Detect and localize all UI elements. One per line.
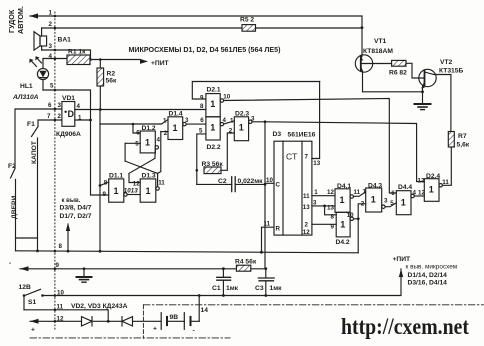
svg-text:13: 13 xyxy=(303,204,310,211)
svg-text:8: 8 xyxy=(200,103,204,110)
svg-text:10: 10 xyxy=(223,93,230,100)
wire D3 out 1 to D4.1 pin12 xyxy=(312,195,335,197)
svg-text:к выв. микросхем: к выв. микросхем xyxy=(406,264,458,271)
wire D3 out 3 to D4.1 pin13 and D4.2 pin8 xyxy=(312,206,336,215)
svg-text:R5 2: R5 2 xyxy=(240,17,254,24)
svg-text:VT1: VT1 xyxy=(374,38,387,45)
svg-text:D2.1: D2.1 xyxy=(207,87,221,94)
svg-text:D4.4: D4.4 xyxy=(398,184,412,191)
svg-text:4: 4 xyxy=(157,137,161,144)
gate D2.3 xyxy=(234,117,248,141)
resistor R3 xyxy=(204,167,221,174)
wire D1.4 out to D2.2 pin6 xyxy=(186,123,206,125)
svg-text:D1.3: D1.3 xyxy=(142,173,156,180)
ground on wire 9 xyxy=(83,269,85,277)
wire D1.4 pin2 from trigger output xyxy=(158,132,161,174)
svg-text:D3/16, D4/14: D3/16, D4/14 xyxy=(408,280,448,287)
svg-text:F1: F1 xyxy=(27,121,35,128)
resistor R1 xyxy=(67,55,90,65)
svg-text:+ПИТ: +ПИТ xyxy=(393,256,412,263)
svg-text:S1: S1 xyxy=(28,299,36,306)
svg-text:к выв.: к выв. xyxy=(62,198,81,204)
battery 9В xyxy=(160,313,162,330)
label ГУДОК АВТОМ. (rotated) xyxy=(7,6,25,34)
svg-text:1: 1 xyxy=(163,117,167,124)
wire D4.2 out to D4.3 pin2 and down to wire8 xyxy=(354,204,366,253)
wire 1 (horn line, to VT1 emitter) xyxy=(30,16,362,56)
gate D4.1 xyxy=(335,189,350,213)
svg-text:+: + xyxy=(153,326,157,333)
svg-text:10: 10 xyxy=(347,212,354,219)
svg-text:1: 1 xyxy=(210,123,215,133)
svg-text:D3/8, D4/7: D3/8, D4/7 xyxy=(60,205,92,212)
svg-text:R1 1к: R1 1к xyxy=(68,49,86,56)
svg-text:-: - xyxy=(9,260,11,267)
wire 10 (+12V rail to +PIT) xyxy=(43,269,401,296)
gate D4.4 xyxy=(396,191,411,215)
gate D2.4 xyxy=(424,179,439,202)
arrow left on wire 1 xyxy=(30,13,39,18)
wire 3 xyxy=(42,50,91,60)
wire 4 (LED to R1 to +PIT) xyxy=(43,59,140,60)
svg-text:D1.4: D1.4 xyxy=(169,111,183,118)
svg-text:11: 11 xyxy=(303,193,310,200)
svg-text:1: 1 xyxy=(145,138,150,148)
svg-text:13: 13 xyxy=(418,177,425,184)
arrow к выв. (to pins) xyxy=(67,224,69,251)
transistor VT2 КТ315Б xyxy=(419,69,436,86)
svg-text:1мк: 1мк xyxy=(270,285,283,292)
wire 12 (+ input) xyxy=(30,320,199,322)
svg-text:561ИЕ16: 561ИЕ16 xyxy=(288,132,316,139)
svg-text:8: 8 xyxy=(59,243,63,250)
svg-text:1: 1 xyxy=(230,117,234,124)
diode VD2 xyxy=(82,317,93,326)
svg-text:D4.3: D4.3 xyxy=(368,183,382,190)
svg-text:13: 13 xyxy=(327,204,334,211)
VD1 pin row 6-3 to F2 xyxy=(15,109,62,168)
wire D2.2 pin5 to R3/C2 node xyxy=(197,134,206,185)
ground xyxy=(422,92,424,104)
svg-text:http://cxem.net: http://cxem.net xyxy=(341,314,469,339)
svg-text:R4 56к: R4 56к xyxy=(235,259,257,266)
svg-text:1: 1 xyxy=(340,195,345,205)
svg-text:R2: R2 xyxy=(107,71,116,78)
wire 2 (speaker line through R5) xyxy=(42,27,362,29)
wire D1.3 pin12 from cross xyxy=(129,173,140,182)
svg-text:ГУДОК: ГУДОК xyxy=(7,9,16,33)
svg-text:12В: 12В xyxy=(19,284,31,291)
svg-text:1: 1 xyxy=(371,195,376,205)
wire D3 C input xyxy=(265,182,274,184)
gate D1.3 xyxy=(140,179,156,202)
wire D4.4 out to D2.4 pin12 xyxy=(414,195,424,197)
wire 11 xyxy=(24,310,108,322)
svg-text:ДВЕРИ: ДВЕРИ xyxy=(11,195,18,219)
gate D4.2 xyxy=(336,212,350,237)
svg-text:6: 6 xyxy=(48,102,52,109)
svg-text:13: 13 xyxy=(131,188,138,195)
svg-text:1: 1 xyxy=(114,186,119,196)
svg-text:D3: D3 xyxy=(273,131,282,138)
gate D1.1 xyxy=(109,179,124,202)
svg-text:12: 12 xyxy=(133,180,140,187)
wire R6 to VT2 base xyxy=(406,63,425,78)
svg-text:2: 2 xyxy=(164,130,168,137)
svg-text:АЛ310А: АЛ310А xyxy=(12,94,39,101)
capacitor C3 xyxy=(265,269,267,296)
svg-text:D1.2: D1.2 xyxy=(142,125,156,132)
svg-text:КАПОТ: КАПОТ xyxy=(31,140,38,164)
svg-text:1: 1 xyxy=(210,99,215,109)
svg-text:R: R xyxy=(276,226,281,233)
wire D4.3 out to D4.4 pin5 xyxy=(385,203,396,207)
node labels 8..12 xyxy=(56,243,65,323)
wire D2.4 out up to R7 xyxy=(442,147,451,185)
svg-text:C: C xyxy=(276,182,281,189)
resistor R5 xyxy=(242,25,256,32)
svg-text:КТ818АМ: КТ818АМ xyxy=(363,48,393,55)
svg-text:BA1: BA1 xyxy=(58,37,72,44)
wire D3 R input from wire 8 xyxy=(262,227,275,252)
wire R3 right to D2.3 pin2 xyxy=(221,133,234,170)
wire 9 (minus rail) xyxy=(20,268,266,270)
svg-text:7: 7 xyxy=(305,154,309,161)
svg-text:3: 3 xyxy=(313,199,317,206)
svg-text:9: 9 xyxy=(103,191,107,198)
svg-text:3: 3 xyxy=(58,102,62,109)
svg-text:C2: C2 xyxy=(218,178,227,185)
wire R7 top to VT2 collector xyxy=(450,75,452,132)
svg-text:VD2, VD3 КД243А: VD2, VD3 КД243А xyxy=(71,303,128,310)
svg-text:56к: 56к xyxy=(106,78,117,85)
svg-text:1: 1 xyxy=(401,198,406,208)
wire D3 out 2 to D4.2 pin9 xyxy=(312,223,336,225)
svg-text:14: 14 xyxy=(201,307,209,314)
wire D2.2 out to D2.3 pin1 xyxy=(224,121,235,124)
svg-text:1: 1 xyxy=(340,220,345,230)
svg-text:1: 1 xyxy=(429,185,434,195)
wire D1.2 pin5 stub xyxy=(125,142,140,144)
dashed enclosure battery box xyxy=(143,304,484,306)
svg-text:9В: 9В xyxy=(170,314,179,321)
junction wire1/wire2 column xyxy=(361,26,364,29)
svg-text:13: 13 xyxy=(313,160,320,167)
resistor R6 xyxy=(392,60,406,66)
gate D2.1 xyxy=(206,94,220,117)
svg-text:R7: R7 xyxy=(458,133,467,140)
switch S1 xyxy=(24,289,41,310)
svg-text:HL1: HL1 xyxy=(20,83,33,90)
svg-text:C1: C1 xyxy=(212,285,221,292)
svg-text:6: 6 xyxy=(391,190,395,197)
wire D1.3 out up to cross xyxy=(157,173,159,186)
svg-text:5: 5 xyxy=(199,127,203,134)
wire D4.1 out to D4.3 pin1 xyxy=(354,192,366,197)
resistor R2 xyxy=(99,60,101,110)
diode VD3 xyxy=(122,317,133,326)
svg-text:+ПИТ: +ПИТ xyxy=(151,60,170,67)
wire D3 out7 feedback to D2.1 pin9 xyxy=(192,82,319,100)
wire D2.3 out node down to C2 / D3 C / wire9 xyxy=(264,122,266,269)
svg-text:5: 5 xyxy=(50,83,54,90)
arrow right +PIT xyxy=(140,59,148,64)
svg-text:10: 10 xyxy=(266,177,273,184)
svg-text:D2.2: D2.2 xyxy=(207,144,221,151)
svg-text:5: 5 xyxy=(390,200,394,207)
svg-text:8: 8 xyxy=(331,213,335,220)
svg-text:2: 2 xyxy=(49,21,53,28)
svg-text:9: 9 xyxy=(331,223,335,230)
VD1 pin 1 wire xyxy=(75,119,91,121)
gate D4.3 xyxy=(366,188,382,212)
svg-text:3: 3 xyxy=(384,198,388,205)
svg-text:7: 7 xyxy=(47,113,51,120)
svg-text:D2.3: D2.3 xyxy=(235,110,249,117)
wire D1.2 pin6 from feedback row xyxy=(133,124,140,133)
svg-text:2: 2 xyxy=(361,201,365,208)
wire D1.2 pin5 down to cross xyxy=(124,143,126,161)
svg-text:11: 11 xyxy=(158,179,165,186)
wire node 14 up to wire 10 xyxy=(198,296,200,322)
svg-text:АВТОМ.: АВТОМ. xyxy=(16,6,25,34)
svg-text:5: 5 xyxy=(135,141,139,148)
junction dots on boundary xyxy=(54,15,57,323)
wire 8 xyxy=(16,251,359,253)
svg-text:2: 2 xyxy=(305,222,309,229)
gate D1.4 xyxy=(168,117,183,140)
svg-text:8: 8 xyxy=(104,180,108,187)
svg-text:1: 1 xyxy=(239,123,244,133)
svg-text:12: 12 xyxy=(303,229,310,236)
LED HL1 xyxy=(42,59,44,91)
svg-text:VT2: VT2 xyxy=(440,59,453,66)
svg-text:1: 1 xyxy=(146,186,151,196)
svg-text:-: - xyxy=(193,328,195,335)
gate D1.2 xyxy=(140,131,155,153)
wire 5 (LED to VD1 pin1 and D1.1) xyxy=(43,90,109,195)
svg-text:6: 6 xyxy=(200,117,204,124)
svg-text:CT: CT xyxy=(286,152,297,162)
svg-text:1: 1 xyxy=(314,189,318,196)
transistor VT1 КТ818АМ xyxy=(355,55,372,72)
wire D1.2 out down to cross xyxy=(154,149,156,158)
resistor R7 xyxy=(448,132,454,148)
svg-text:VD1: VD1 xyxy=(62,95,75,102)
svg-text:1: 1 xyxy=(49,10,53,17)
counter D3 561ИЕ16 xyxy=(274,141,312,235)
svg-text:1: 1 xyxy=(78,115,82,122)
svg-text:1: 1 xyxy=(173,123,178,133)
wire feedback row y=124 xyxy=(100,120,168,125)
wire D2.3 out to D2.4 pin13 xyxy=(252,122,424,182)
gate D2.2 xyxy=(206,117,220,140)
svg-text:КТ315Б: КТ315Б xyxy=(439,68,463,75)
node: R2/VD1.4 net vertical to feedback row xyxy=(99,110,101,125)
svg-text:D2.4: D2.4 xyxy=(426,173,440,180)
svg-text:0,022мк: 0,022мк xyxy=(238,178,264,185)
svg-text:11: 11 xyxy=(354,189,361,196)
svg-text:D4.1: D4.1 xyxy=(337,183,351,190)
speaker BA1 xyxy=(41,28,43,50)
svg-text:+: + xyxy=(31,327,35,334)
svg-text:МИКРОСХЕМЫ D1, D2, D4 561ЛЕ5 (: МИКРОСХЕМЫ D1, D2, D4 561ЛЕ5 (564 ЛЕ5) xyxy=(129,47,281,54)
svg-text:3: 3 xyxy=(49,43,53,50)
svg-text:9: 9 xyxy=(200,94,204,101)
svg-text:2: 2 xyxy=(229,128,233,135)
wire D1.1 out to D1.3 pin13 xyxy=(127,194,140,196)
svg-text:D1/7, D2/7: D1/7, D2/7 xyxy=(60,213,92,220)
svg-text:5,6к: 5,6к xyxy=(457,142,470,149)
wire VT1 collector to VT2 emitter node xyxy=(363,91,423,93)
svg-text:12: 12 xyxy=(327,189,334,196)
F1/F2 common bottom loop xyxy=(16,238,38,251)
dashed boundary line (car body) xyxy=(54,12,56,330)
capacitor C1 xyxy=(222,269,224,296)
wire D3 pin7 out up to feedback row xyxy=(312,82,320,159)
svg-text:R3 56к: R3 56к xyxy=(202,161,224,168)
svg-text:1мк: 1мк xyxy=(226,285,239,292)
svg-text:R6 82: R6 82 xyxy=(389,70,407,77)
svg-text:КД906А: КД906А xyxy=(56,131,81,138)
diode bridge VD1 КД906А xyxy=(62,102,75,127)
svg-text:2: 2 xyxy=(58,113,62,120)
svg-text:4: 4 xyxy=(77,103,81,110)
wire D2.1 out to D4.4 pin6 xyxy=(224,99,397,194)
svg-text:D1/14, D2/14: D1/14, D2/14 xyxy=(408,272,448,279)
wire net down to D1.1 pin8 and wire 8 xyxy=(100,124,109,251)
svg-text:11: 11 xyxy=(264,220,271,227)
svg-text:D1.1: D1.1 xyxy=(109,173,123,180)
svg-text:9: 9 xyxy=(56,262,60,269)
resistor R4 xyxy=(236,265,250,271)
svg-text:D: D xyxy=(68,109,75,119)
capacitor C2 xyxy=(197,183,265,185)
svg-text:C3: C3 xyxy=(255,285,264,292)
svg-text:D4.2: D4.2 xyxy=(336,239,350,246)
cross-coupling diagonals RS trigger xyxy=(125,158,158,173)
VD1 pin 4 wire to D2.1 pin 8 xyxy=(75,109,206,111)
VD1 pin row 7-2 to F1 xyxy=(38,120,62,127)
